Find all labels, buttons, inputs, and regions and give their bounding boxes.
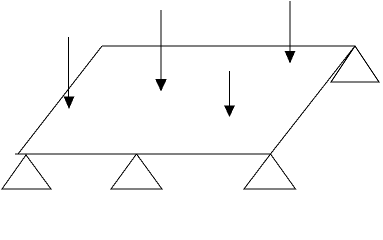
load arrow 1 stem — [68, 37, 70, 98]
load arrow 4 stem — [289, 1, 291, 52]
plate right edge — [271, 46, 356, 154]
load arrow 3 stem — [229, 71, 231, 106]
load arrow 3 head — [224, 106, 235, 118]
load arrow 2 head — [155, 79, 167, 92]
load arrow 4 head — [285, 51, 296, 64]
support triangle left — [2, 155, 51, 189]
support triangle top-right — [331, 46, 379, 82]
plate left edge — [18, 46, 102, 154]
load arrow 1 head — [64, 97, 75, 110]
plate top edge — [102, 45, 355, 47]
support triangle middle — [111, 154, 162, 189]
plate bottom edge — [15, 153, 271, 155]
load arrow 2 stem — [160, 10, 162, 80]
support triangle right — [244, 154, 296, 189]
